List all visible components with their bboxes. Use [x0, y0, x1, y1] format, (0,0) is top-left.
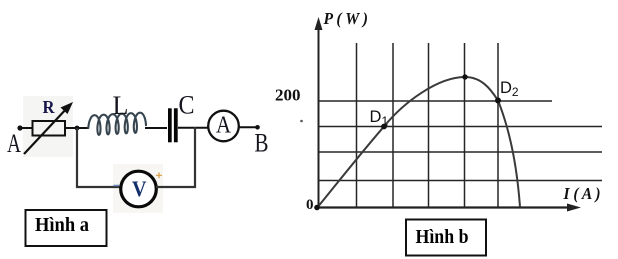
svg-text:I ( A ): I ( A ) — [563, 184, 601, 203]
svg-text:R: R — [43, 97, 56, 117]
svg-text:C: C — [179, 91, 195, 120]
y-axis P — [315, 17, 323, 208]
svg-text:P ( W ): P ( W ) — [323, 9, 368, 28]
wire inductor to capacitor — [145, 127, 167, 129]
svg-text:200: 200 — [275, 86, 301, 105]
wire R to inductor — [65, 127, 89, 129]
point D1 — [370, 108, 389, 129]
svg-text:A: A — [7, 129, 21, 158]
grid horizontal lines — [319, 101, 603, 181]
svg-text:V: V — [132, 176, 147, 201]
capacitor C — [168, 91, 195, 143]
point D2 — [495, 79, 519, 104]
ammeter A1 — [208, 111, 239, 142]
point origin — [314, 205, 320, 211]
x-axis I — [317, 204, 581, 212]
svg-text:0: 0 — [306, 197, 314, 213]
wire right branch up — [194, 127, 196, 188]
inductor L — [88, 91, 146, 135]
svg-text:Hình a: Hình a — [35, 214, 89, 236]
node junction after R — [75, 126, 80, 131]
svg-text:L: L — [113, 91, 129, 120]
caption Hình b — [406, 220, 486, 256]
peak point — [462, 74, 467, 79]
wire ammeter to node B — [239, 126, 258, 128]
curve P vs I — [317, 77, 520, 208]
svg-text:A: A — [216, 113, 232, 139]
node A — [7, 125, 23, 158]
caption Hình a — [26, 210, 107, 246]
wire left branch down — [76, 128, 78, 188]
node B — [255, 125, 269, 158]
wire capacitor to ammeter — [178, 127, 209, 129]
wire A to resistor — [20, 127, 33, 129]
svg-text:B: B — [255, 129, 269, 158]
svg-text:Hình b: Hình b — [416, 226, 469, 248]
wire voltmeter to right branch — [156, 186, 196, 188]
voltmeter V1 — [114, 171, 163, 207]
resistor R (variable) — [24, 97, 73, 154]
grid vertical lines — [357, 43, 499, 207]
wire bottom left to voltmeter — [76, 186, 121, 188]
